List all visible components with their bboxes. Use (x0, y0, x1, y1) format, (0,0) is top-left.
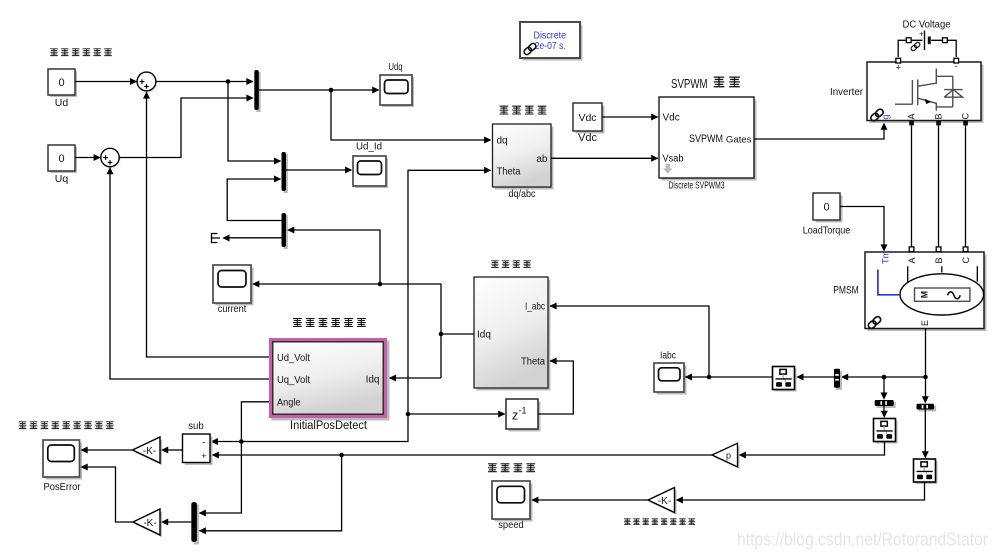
svg-text:InitialPosDetect: InitialPosDetect (290, 420, 368, 432)
constant Vdc (573, 103, 605, 144)
svg-text:Theta: Theta (521, 357, 546, 368)
annotation 电机速度 (488, 464, 535, 472)
mux Mux1 (254, 70, 260, 112)
sum block Add2 (101, 148, 121, 168)
svg-text:Gates: Gates (726, 135, 752, 146)
svg-text:-K-: -K- (143, 446, 156, 457)
wire LoadTorque to PMSM Tm (840, 207, 884, 245)
svg-text:Vdc: Vdc (578, 132, 597, 144)
powergui block Discrete 2e-07 s. (520, 22, 583, 61)
svg-text:Uq: Uq (55, 173, 69, 185)
svg-text:C: C (961, 113, 971, 120)
svg-text:dq/abc: dq/abc (509, 188, 536, 200)
sum block Add1 (137, 72, 157, 93)
wire dq/abc ab to SVPWM Vsab (551, 157, 658, 159)
svg-text:A: A (907, 113, 917, 119)
wire SVPWM Gates to inverter g (754, 130, 884, 140)
scope Ud_Id (353, 142, 388, 189)
wire gain to speed scope (537, 499, 648, 501)
gain -K- mech to elec speed (648, 488, 677, 515)
svg-text:M: M (919, 291, 929, 298)
svg-text:z: z (512, 409, 518, 423)
svg-text:-K-: -K- (143, 518, 156, 529)
svg-text:E: E (920, 320, 930, 326)
gain p (712, 443, 740, 469)
wire lower gain to PosError input2 (86, 467, 133, 522)
annotation 坐标变换 (upper) (500, 106, 547, 114)
svg-text:Tm: Tm (880, 250, 890, 264)
wire DC+ to inverter (898, 40, 906, 57)
annotation 机械速度到角速度 (624, 519, 695, 525)
svg-text:Vsab: Vsab (663, 154, 684, 165)
wire Add2 to Mux1 input2 (119, 98, 253, 158)
gain -K- (lower) (133, 509, 162, 537)
wire inverter A to PMSM A (911, 125, 913, 246)
svg-text:Iabc: Iabc (660, 351, 676, 362)
wire z-1 to transform Theta (538, 361, 573, 414)
wire measurement bus main run to Iabc scope (847, 376, 926, 378)
wire InitialPosDetect Uq_Volt to Add2 (110, 168, 269, 380)
wire bus selector3 to gain (682, 482, 925, 500)
unit delay z-1 (506, 399, 541, 432)
svg-text:Idq: Idq (477, 330, 491, 341)
wire branch to InitialPosDetect Idq input (390, 377, 441, 379)
annotation SVPWM模块 (671, 76, 740, 91)
wire InitialPosDetect Angle net (to sub-, mux, z-1, dq/abc Theta) (200, 402, 270, 513)
demux horizontal bar 2 (917, 404, 937, 412)
wire bar2 to bus selector3 (924, 410, 926, 453)
svg-text:Discrete SVPWM3: Discrete SVPWM3 (669, 180, 725, 192)
svg-text:Uq_Volt: Uq_Volt (277, 375, 310, 386)
wire bus selector2 to gain p (745, 442, 885, 455)
svg-text:speed: speed (498, 519, 524, 531)
svg-text:-K-: -K- (658, 496, 671, 507)
svg-text:p: p (726, 451, 731, 461)
scope speed (flipped) (492, 481, 533, 531)
svg-text:+: + (919, 30, 924, 39)
scope Iabc (flipped, label above) (654, 351, 687, 395)
wire bar1 to bus selector2 (883, 406, 885, 412)
wire Idq output net: transform Idq to current scope / demux / InitialPosDetect (253, 284, 474, 378)
svg-text:PosError: PosError (44, 481, 81, 493)
wire Mux2 to Ud_Id scope (286, 169, 351, 171)
wire Mux4 to lower gain (167, 521, 191, 523)
bus selector 2 (874, 419, 898, 444)
svg-text:Udq: Udq (389, 62, 403, 73)
IGBT + diode icon (895, 69, 953, 111)
svg-text:+: + (201, 451, 206, 461)
svg-text:Idq: Idq (366, 374, 380, 385)
svg-text:SVPWM: SVPWM (671, 76, 708, 91)
svg-text:LoadTorque: LoadTorque (803, 225, 851, 237)
wire Demux1 output2 to terminator (230, 237, 282, 239)
wire gain p to sub + (branch to Mux4) (218, 454, 712, 456)
svg-text:Theta: Theta (497, 167, 522, 178)
mux Mux2 (282, 152, 288, 193)
svg-text:Angle: Angle (277, 397, 301, 408)
wire branch down to demux bar2 (925, 377, 927, 398)
wire PMSM E output down to measurement bus (925, 329, 927, 378)
wire InitialPosDetect Ud_Volt to Add1 (147, 92, 270, 357)
demux Demux1 (282, 213, 288, 249)
svg-text:dq: dq (497, 136, 508, 147)
annotation 高频电压注入 (50, 49, 112, 56)
svg-text:+: + (896, 62, 901, 72)
sub block (flipped) (183, 421, 213, 465)
svg-text:-: - (955, 61, 958, 71)
wire gain to PosError input1 (86, 449, 132, 451)
constant Uq (48, 145, 77, 185)
wire Demux1 output1 to Mux2 input2 (227, 179, 281, 221)
wire inverter B to PMSM B (938, 125, 940, 246)
wire Vdc to SVPWM (602, 116, 658, 118)
svg-text:Inverter: Inverter (830, 86, 863, 98)
wire Ud to Add1 (75, 81, 136, 83)
svg-text:2e-07 s.: 2e-07 s. (535, 41, 566, 52)
constant Ud (48, 69, 77, 109)
svg-text:current: current (218, 303, 247, 315)
svg-text:PMSM: PMSM (833, 285, 859, 297)
mux Mux4 (flipped) (191, 502, 199, 545)
constant LoadTorque (803, 193, 851, 237)
svg-text:sub: sub (188, 421, 204, 432)
wire Uq to Add2 (75, 157, 100, 159)
bus selector 1 (773, 367, 797, 392)
svg-text:A: A (907, 257, 917, 263)
subsystem abc to dq (flipped) (474, 277, 551, 391)
svg-text:C: C (961, 257, 971, 264)
gain -K- (upper) (133, 437, 163, 465)
annotation 辨识角度和实际角度 (19, 422, 114, 429)
wire sub to gain -K- (167, 449, 183, 451)
svg-text:0: 0 (58, 77, 64, 89)
svg-text:Ud_Volt: Ud_Volt (277, 353, 310, 364)
DC voltage source (906, 30, 947, 52)
svg-text:B: B (934, 113, 944, 119)
svg-text:-1: -1 (519, 406, 527, 416)
svg-text:I_abc: I_abc (525, 302, 545, 313)
svg-text:Vdc: Vdc (578, 112, 596, 124)
rate transition vertical bar (834, 369, 842, 390)
subsystem InitialPosDetect (magenta highlighted, flipped) (269, 338, 390, 432)
bus selector 3 (914, 459, 938, 484)
scope Udq (380, 62, 414, 107)
wire branch to Demux1 input (right side) (288, 230, 380, 284)
subsystem dq/abc (493, 124, 554, 200)
wire branch down to demux bar1 (883, 377, 885, 394)
svg-text:Ud: Ud (55, 97, 69, 109)
subsystem Inverter (867, 58, 984, 125)
wire DC- to inverter (947, 40, 956, 57)
svg-text:https://blog.csdn.net/Rotorand: https://blog.csdn.net/RotorandStator (737, 529, 988, 550)
svg-text:Ud_Id: Ud_Id (356, 142, 382, 153)
annotation 角度辨识模块 (293, 319, 366, 327)
scope current (flipped) (213, 265, 254, 315)
demux horizontal bar 1 (875, 400, 896, 408)
scope PosError (flipped, two inputs) (43, 440, 82, 493)
wire vbar to bus selector1 (802, 376, 834, 378)
wire inverter C to PMSM C (965, 125, 967, 246)
wire bus selector1 to Iabc / I_abc branch (685, 376, 772, 378)
svg-text:-: - (202, 437, 205, 448)
svg-text:DC Voltage: DC Voltage (903, 19, 951, 31)
wire Mux1 to Udq scope (branch to dq/abc) (259, 89, 379, 91)
subsystem PMSM (865, 247, 987, 331)
annotation 坐标变换 (lower) (491, 261, 530, 268)
svg-text:Vdc: Vdc (663, 113, 680, 124)
svg-text:0: 0 (823, 202, 829, 214)
terminator E (212, 234, 221, 243)
svg-text:B: B (934, 257, 944, 263)
svg-text:SVPWM: SVPWM (689, 133, 723, 145)
wire Add1 to Mux1 (branch dot to Mux2) (156, 81, 253, 83)
svg-text:0: 0 (58, 153, 64, 165)
subsystem Discrete SVPWM3 (659, 97, 757, 192)
svg-text:ab: ab (536, 154, 548, 165)
